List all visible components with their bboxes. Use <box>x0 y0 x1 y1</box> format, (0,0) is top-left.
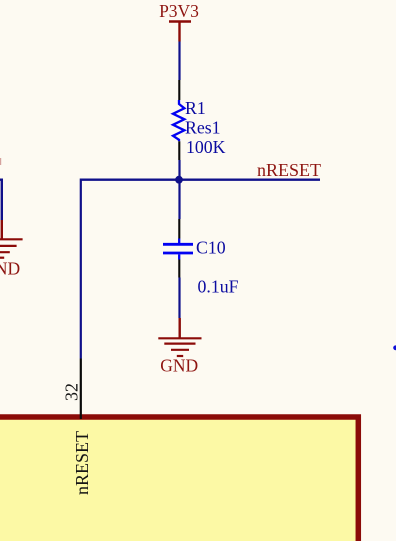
svg-text:GND: GND <box>160 356 198 376</box>
svg-text:32: 32 <box>62 383 82 401</box>
svg-text:nRESET: nRESET <box>257 160 321 180</box>
svg-text:R1: R1 <box>185 98 206 118</box>
svg-text:nRESET: nRESET <box>72 431 92 495</box>
svg-text:0.1uF: 0.1uF <box>198 276 239 296</box>
svg-text:P3V3: P3V3 <box>159 1 199 21</box>
svg-text:C10: C10 <box>196 237 226 257</box>
svg-text:Res1: Res1 <box>185 118 221 138</box>
svg-text:100K: 100K <box>186 137 226 157</box>
svg-text:GND: GND <box>0 259 20 279</box>
